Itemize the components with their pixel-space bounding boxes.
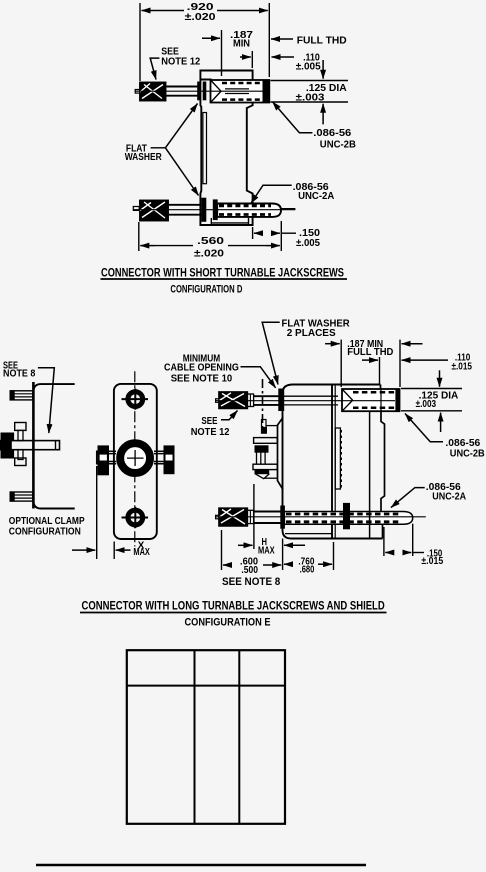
svg-text:±.003: ±.003 (416, 398, 437, 410)
svg-text:±.005: ±.005 (296, 237, 320, 249)
svg-text:NOTE 12: NOTE 12 (161, 56, 200, 68)
svg-text:±.003: ±.003 (296, 91, 325, 103)
svg-text:±.020: ±.020 (194, 248, 224, 260)
svg-text:CONFIGURATION E: CONFIGURATION E (185, 616, 271, 628)
svg-text:FULL THD: FULL THD (297, 35, 347, 47)
svg-text:CONFIGURATION: CONFIGURATION (9, 525, 81, 537)
svg-text:SEE NOTE 10: SEE NOTE 10 (171, 372, 233, 384)
svg-text:SEE NOTE 8: SEE NOTE 8 (222, 576, 280, 588)
svg-text:.560: .560 (197, 235, 224, 247)
svg-text:UNC-2B: UNC-2B (450, 448, 485, 460)
svg-text:CONFIGURATION D: CONFIGURATION D (170, 283, 242, 295)
svg-text:±.015: ±.015 (421, 555, 443, 567)
svg-text:FULL THD: FULL THD (347, 346, 393, 358)
svg-text:CONNECTOR WITH LONG TURNABLE J: CONNECTOR WITH LONG TURNABLE JACKSCREWS … (82, 599, 385, 613)
svg-text:±.005: ±.005 (296, 61, 321, 73)
svg-text:UNC-2B: UNC-2B (320, 138, 356, 150)
svg-text:.680: .680 (300, 564, 315, 576)
svg-text:2 PLACES: 2 PLACES (287, 327, 336, 339)
svg-text:MAX: MAX (258, 545, 275, 557)
svg-text:±.015: ±.015 (452, 360, 473, 372)
svg-text:CONNECTOR WITH SHORT TURNABLE: CONNECTOR WITH SHORT TURNABLE JACKSCREWS (101, 265, 344, 279)
svg-text:WASHER: WASHER (125, 151, 162, 163)
svg-text:.500: .500 (241, 564, 258, 576)
svg-text:UNC-2A: UNC-2A (298, 190, 335, 202)
svg-text:UNC-2A: UNC-2A (432, 490, 466, 502)
svg-text:NOTE 12: NOTE 12 (191, 426, 230, 438)
svg-text:.086-56: .086-56 (313, 127, 351, 139)
svg-text:±.020: ±.020 (185, 11, 216, 23)
svg-text:MAX: MAX (133, 546, 150, 558)
svg-text:MIN: MIN (233, 37, 250, 49)
svg-text:NOTE 8: NOTE 8 (3, 368, 36, 380)
